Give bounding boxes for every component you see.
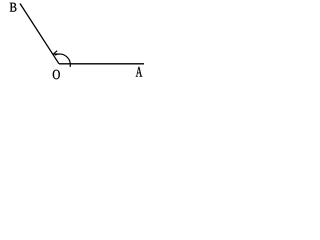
arrowhead at arc end <box>53 51 58 54</box>
angle arc (ccw from ray OA toward ray OB) <box>55 54 71 67</box>
label B <box>10 3 17 12</box>
label A <box>136 67 142 77</box>
ray OB (diagonal from vertex O up-left to B) <box>20 4 59 64</box>
label O <box>53 70 60 79</box>
ray OA (horizontal from vertex O to A) <box>59 63 144 65</box>
